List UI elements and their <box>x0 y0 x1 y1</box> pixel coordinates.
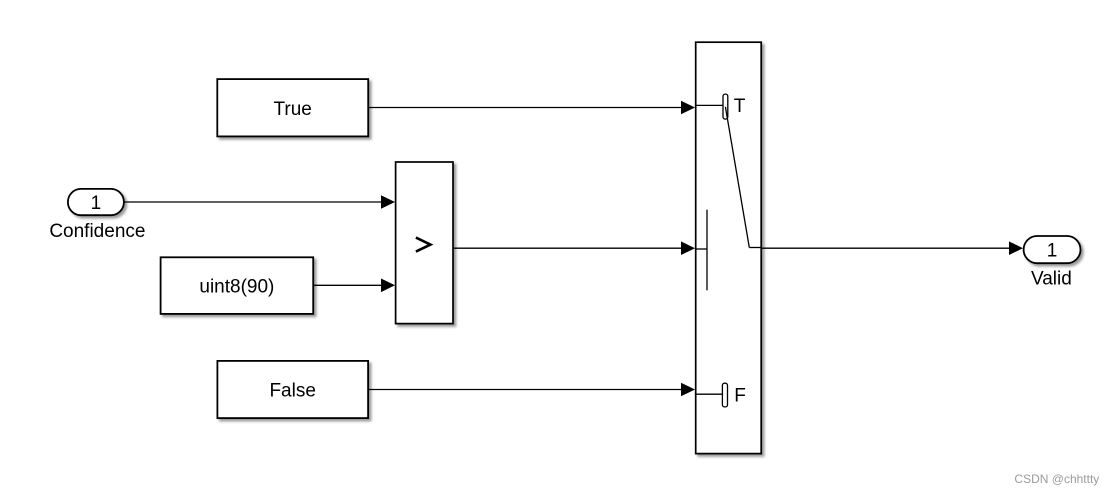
switch T input stub <box>695 104 723 106</box>
outport 1 Valid <box>1024 236 1081 263</box>
> glyph <box>416 238 431 252</box>
switch F input stub <box>695 393 722 395</box>
inport 1 Confidence <box>68 189 124 215</box>
switch T contact pill <box>723 94 728 119</box>
switch F contact pill <box>722 383 727 407</box>
svg-text:1: 1 <box>1047 240 1058 261</box>
wire False to Switch F <box>368 383 695 397</box>
wire uint8(90) to RelOp <box>313 279 395 293</box>
svg-text:False: False <box>269 381 315 402</box>
svg-text:Valid: Valid <box>1031 269 1072 290</box>
svg-text:Confidence: Confidence <box>49 221 145 242</box>
svg-text:uint8(90): uint8(90) <box>199 276 274 297</box>
switch block U1 <box>696 42 762 453</box>
switch threshold line <box>706 210 708 291</box>
svg-text:CSDN @chhttty: CSDN @chhttty <box>1014 472 1099 486</box>
constant block uint8(90) <box>161 257 314 314</box>
svg-text:True: True <box>274 99 312 120</box>
constant block True <box>217 79 368 136</box>
relational operator block > <box>396 162 453 324</box>
switch control stub <box>695 248 707 250</box>
constant block False <box>217 361 368 418</box>
switch arm diagonal <box>725 107 749 248</box>
svg-text:T: T <box>734 96 746 117</box>
wire True to Switch T <box>368 101 695 115</box>
wire Switch to Outport <box>762 241 1023 255</box>
wire Confidence to RelOp <box>124 195 395 209</box>
wire RelOp to Switch control <box>453 241 695 255</box>
svg-text:1: 1 <box>91 193 102 214</box>
svg-text:F: F <box>734 386 746 407</box>
switch arm to output <box>749 247 762 249</box>
